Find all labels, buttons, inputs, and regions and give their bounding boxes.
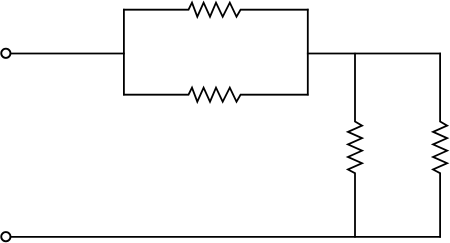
resistor R1 (top branch of parallel box)	[124, 3, 308, 17]
wire (output from box to right corner)	[308, 53, 440, 55]
wire (bottom return rail)	[11, 236, 440, 238]
terminal T2 (bottom-left open circle)	[1, 232, 10, 241]
wire (box left vertical)	[123, 10, 125, 95]
resistor R3 (left vertical shunt with leads)	[348, 54, 362, 237]
resistor R2 (bottom branch of parallel box)	[124, 88, 308, 102]
wire (box right vertical)	[307, 10, 309, 95]
terminal T1 (top-left open circle)	[1, 49, 10, 58]
resistor R4 (right vertical shunt with leads)	[433, 54, 447, 237]
wire (top input from T1 to parallel box)	[11, 53, 124, 55]
